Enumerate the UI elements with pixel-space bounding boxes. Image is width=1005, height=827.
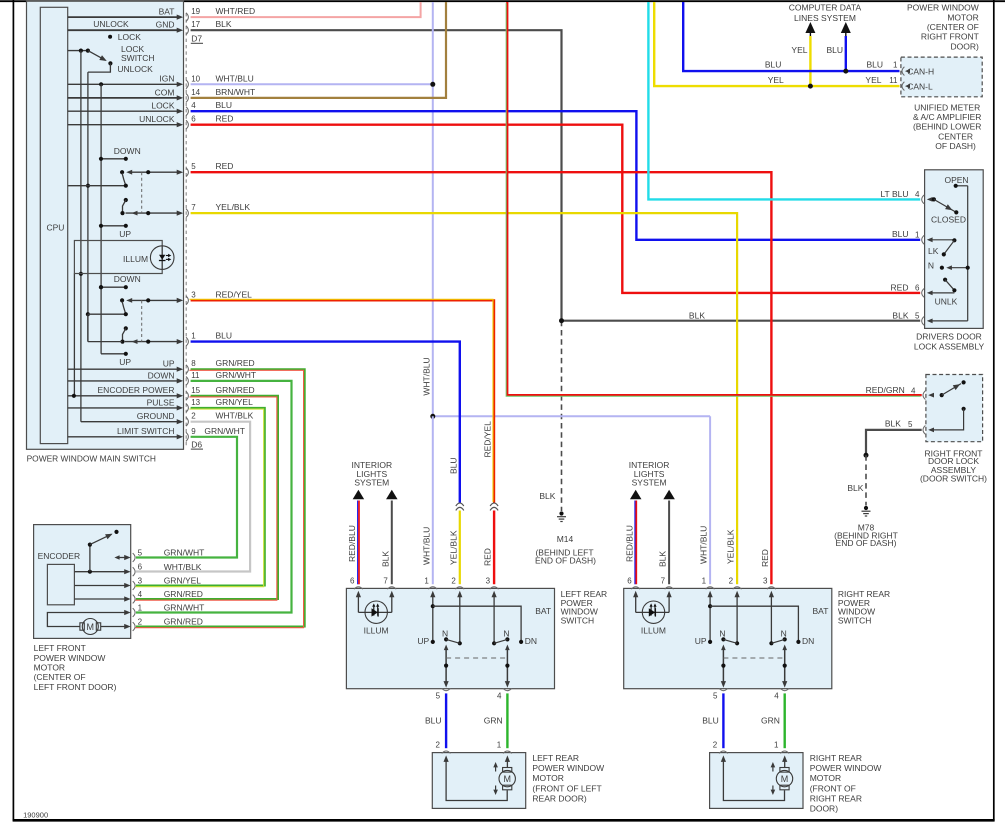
svg-text:YEL/BLK: YEL/BLK [216,202,251,212]
svg-text:11: 11 [191,371,200,380]
svg-text:190900: 190900 [23,811,48,820]
svg-text:RED/YEL: RED/YEL [483,421,493,458]
svg-text:POWER WINDOW: POWER WINDOW [907,3,979,13]
svg-text:2: 2 [451,576,456,585]
svg-text:YEL: YEL [791,45,807,55]
svg-text:BLU: BLU [216,100,233,110]
svg-text:UP: UP [163,359,175,369]
svg-text:14: 14 [191,88,200,97]
svg-text:9: 9 [191,427,196,436]
svg-text:GRN/WHT: GRN/WHT [216,370,257,380]
svg-text:5: 5 [908,420,913,429]
svg-text:& A/C AMPLIFIER: & A/C AMPLIFIER [913,112,982,122]
svg-text:10: 10 [191,74,200,83]
svg-text:5: 5 [915,312,920,321]
svg-text:SYSTEM: SYSTEM [632,478,667,488]
svg-text:5: 5 [191,162,196,171]
svg-text:N: N [928,260,934,270]
svg-text:6: 6 [191,115,196,124]
svg-text:YEL/BLK: YEL/BLK [448,530,458,565]
svg-text:1: 1 [138,603,143,612]
svg-text:2: 2 [435,741,440,750]
svg-text:OF DASH): OF DASH) [935,141,976,151]
svg-text:4: 4 [911,386,916,395]
svg-text:MOTOR: MOTOR [810,773,841,783]
svg-text:SWITCH: SWITCH [121,53,155,63]
svg-text:DN: DN [525,636,537,646]
svg-text:BLK: BLK [892,310,908,320]
svg-text:5: 5 [713,691,718,700]
svg-text:RED/BLU: RED/BLU [347,525,357,562]
svg-text:RED: RED [216,114,234,124]
svg-text:M: M [503,774,511,784]
svg-text:UNLOCK: UNLOCK [139,114,175,124]
svg-text:3: 3 [191,290,196,299]
svg-text:UNLOCK: UNLOCK [93,19,129,29]
svg-text:6: 6 [138,563,143,572]
svg-text:RED: RED [483,548,493,566]
svg-text:3: 3 [763,576,768,585]
svg-text:(CENTER OF: (CENTER OF [927,22,979,32]
svg-text:LT BLU: LT BLU [880,189,908,199]
svg-text:OPEN: OPEN [944,175,968,185]
svg-text:ILLUM: ILLUM [641,626,666,636]
svg-text:MOTOR: MOTOR [34,663,65,673]
svg-text:1: 1 [915,231,920,240]
svg-text:N: N [503,628,509,638]
svg-text:LINES SYSTEM: LINES SYSTEM [794,13,856,23]
svg-text:BRN/WHT: BRN/WHT [216,87,256,97]
svg-text:8: 8 [191,359,196,368]
svg-text:2: 2 [191,412,196,421]
svg-text:2: 2 [138,617,143,626]
svg-text:DOWN: DOWN [114,146,141,156]
svg-text:(FRONT OF LEFT: (FRONT OF LEFT [532,783,601,793]
svg-text:UNLOCK: UNLOCK [117,64,153,74]
svg-text:UNLK: UNLK [935,296,958,306]
svg-text:UP: UP [417,636,429,646]
svg-text:1: 1 [424,576,429,585]
svg-text:GRN/YEL: GRN/YEL [164,576,202,586]
svg-text:UP: UP [119,357,131,367]
svg-text:1: 1 [702,576,707,585]
svg-text:BLU: BLU [702,715,719,725]
svg-text:11: 11 [889,76,898,85]
svg-text:1: 1 [191,332,196,341]
svg-text:GRN/WHT: GRN/WHT [164,603,205,613]
svg-text:GRN/RED: GRN/RED [164,589,203,599]
svg-text:DOWN: DOWN [114,274,141,284]
svg-text:GRN/WHT: GRN/WHT [164,548,205,558]
svg-text:5: 5 [138,548,143,557]
svg-text:ILLUM: ILLUM [364,626,389,636]
svg-text:MOTOR: MOTOR [947,12,978,22]
svg-text:1: 1 [497,741,502,750]
svg-text:(FRONT OF: (FRONT OF [810,783,856,793]
svg-text:LEFT FRONT: LEFT FRONT [34,643,86,653]
svg-text:CLOSED: CLOSED [931,215,966,225]
svg-text:CENTER: CENTER [938,131,973,141]
svg-text:6: 6 [350,576,355,585]
svg-text:LIMIT SWITCH: LIMIT SWITCH [117,426,174,436]
svg-text:19: 19 [191,7,200,16]
svg-text:GRN/RED: GRN/RED [216,385,255,395]
svg-text:BLK: BLK [216,19,232,29]
svg-text:DN: DN [802,636,814,646]
svg-text:GRN/YEL: GRN/YEL [216,397,254,407]
svg-text:WHT/BLK: WHT/BLK [164,562,202,572]
svg-text:5: 5 [436,691,441,700]
svg-text:N: N [781,628,787,638]
svg-text:WHT/BLK: WHT/BLK [216,411,254,421]
svg-text:ENCODER POWER: ENCODER POWER [98,385,175,395]
svg-text:BLK: BLK [380,551,390,567]
svg-text:YEL: YEL [865,75,881,85]
svg-text:(DOOR SWITCH): (DOOR SWITCH) [920,474,987,484]
svg-text:RED/BLU: RED/BLU [624,525,634,562]
svg-text:REAR DOOR): REAR DOOR) [532,793,586,803]
svg-text:3: 3 [138,576,143,585]
svg-text:7: 7 [191,203,196,212]
svg-text:BLU: BLU [892,229,909,239]
svg-text:CAN-L: CAN-L [907,81,933,91]
svg-text:YEL/BLK: YEL/BLK [726,529,736,564]
svg-text:3: 3 [486,576,491,585]
svg-text:BAT: BAT [535,606,551,616]
svg-text:4: 4 [191,101,196,110]
svg-text:POWER WINDOW: POWER WINDOW [532,763,604,773]
svg-text:RIGHT FRONT: RIGHT FRONT [921,32,979,42]
svg-text:BLU: BLU [425,715,442,725]
svg-text:(CENTER OF: (CENTER OF [34,672,86,682]
svg-text:DRIVERS DOOR: DRIVERS DOOR [916,332,982,342]
svg-text:POWER WINDOW MAIN SWITCH: POWER WINDOW MAIN SWITCH [27,453,156,463]
svg-text:UNIFIED METER: UNIFIED METER [914,102,980,112]
svg-text:7: 7 [383,576,388,585]
svg-text:1: 1 [893,61,898,70]
svg-text:RED/YEL: RED/YEL [216,289,253,299]
svg-text:UP: UP [695,636,707,646]
svg-text:2: 2 [713,741,718,750]
svg-text:COMPUTER DATA: COMPUTER DATA [789,2,862,12]
svg-text:4: 4 [138,590,143,599]
svg-text:COM: COM [155,87,175,97]
svg-text:BLU: BLU [448,457,458,474]
svg-text:YEL: YEL [768,75,784,85]
svg-text:N: N [442,628,448,638]
svg-text:WHT/BLU: WHT/BLU [421,527,431,565]
svg-text:2: 2 [729,576,734,585]
svg-text:GROUND: GROUND [137,411,175,421]
svg-text:BLK: BLK [658,551,668,567]
svg-text:POWER WINDOW: POWER WINDOW [810,763,882,773]
svg-text:GRN/RED: GRN/RED [216,358,255,368]
svg-text:BLU: BLU [866,60,883,70]
svg-text:BAT: BAT [813,606,829,616]
svg-text:(BEHIND LOWER: (BEHIND LOWER [913,122,981,132]
svg-text:SWITCH: SWITCH [838,616,872,626]
svg-text:RIGHT REAR: RIGHT REAR [810,753,862,763]
svg-text:WHT/BLU: WHT/BLU [216,73,254,83]
svg-text:ENCODER: ENCODER [38,551,81,561]
svg-text:D6: D6 [191,439,202,449]
svg-text:4: 4 [497,691,502,700]
svg-text:RED: RED [216,161,234,171]
svg-text:13: 13 [191,398,200,407]
svg-text:17: 17 [191,20,200,29]
svg-text:BLU: BLU [216,331,233,341]
svg-text:6: 6 [915,284,920,293]
svg-text:BLU: BLU [765,60,782,70]
svg-text:WHT/BLU: WHT/BLU [421,357,431,395]
svg-text:GRN: GRN [761,715,780,725]
svg-text:LEFT FRONT DOOR): LEFT FRONT DOOR) [34,682,117,692]
svg-text:BLU: BLU [826,45,843,55]
svg-text:MOTOR: MOTOR [532,773,563,783]
svg-text:GND: GND [156,20,175,30]
svg-text:D7: D7 [191,34,202,44]
svg-text:SWITCH: SWITCH [561,616,595,626]
svg-text:LOCK ASSEMBLY: LOCK ASSEMBLY [914,341,985,351]
svg-text:ILLUM: ILLUM [123,254,148,264]
svg-text:BLK: BLK [689,311,705,321]
svg-text:POWER WINDOW: POWER WINDOW [34,653,106,663]
svg-text:LOCK: LOCK [118,32,141,42]
svg-text:M: M [781,774,789,784]
svg-text:GRN/WHT: GRN/WHT [204,426,245,436]
svg-text:PULSE: PULSE [147,397,175,407]
svg-text:UP: UP [119,229,131,239]
svg-text:WHT/BLU: WHT/BLU [699,526,709,564]
svg-text:END OF DASH): END OF DASH) [535,555,596,565]
svg-text:LEFT REAR: LEFT REAR [532,753,579,763]
svg-text:RED: RED [760,549,770,567]
svg-text:LK: LK [928,246,939,256]
svg-text:M: M [87,622,95,632]
svg-text:WHT/RED: WHT/RED [216,6,256,16]
svg-text:RIGHT REAR: RIGHT REAR [810,793,862,803]
svg-text:1: 1 [774,741,779,750]
svg-text:DOWN: DOWN [148,370,175,380]
svg-text:BAT: BAT [159,7,175,17]
svg-text:DOOR): DOOR) [810,804,839,814]
svg-text:N: N [719,628,725,638]
svg-text:BLK: BLK [885,419,901,429]
svg-text:7: 7 [661,576,666,585]
svg-text:BLK: BLK [539,491,555,501]
svg-text:CAN-H: CAN-H [907,66,934,76]
svg-text:SYSTEM: SYSTEM [354,478,389,488]
svg-text:RED: RED [891,282,909,292]
svg-text:15: 15 [191,386,200,395]
svg-text:LOCK: LOCK [151,101,174,111]
svg-text:6: 6 [627,576,632,585]
svg-text:RED/GRN: RED/GRN [866,385,905,395]
svg-text:M14: M14 [557,534,574,544]
svg-text:4: 4 [774,691,779,700]
svg-text:BLK: BLK [847,483,863,493]
svg-text:END OF DASH): END OF DASH) [836,538,897,548]
svg-text:IGN: IGN [159,74,174,84]
svg-text:GRN/RED: GRN/RED [164,617,203,627]
svg-text:CPU: CPU [47,223,65,233]
svg-text:GRN: GRN [484,715,503,725]
svg-text:DOOR): DOOR) [950,41,979,51]
svg-text:4: 4 [915,190,920,199]
